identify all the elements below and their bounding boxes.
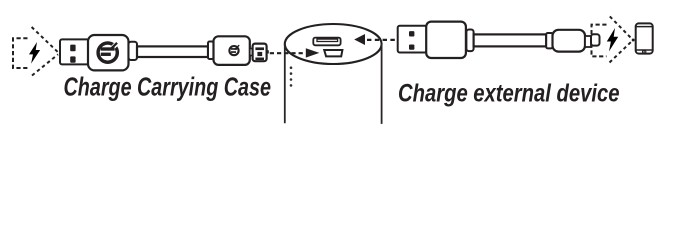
micro-USB tip bbox=[253, 44, 267, 62]
cable (left) bbox=[137, 46, 208, 57]
plug neck (right) bbox=[585, 36, 591, 47]
cable boot (right plug) bbox=[466, 30, 473, 52]
USB-A output port inner bar bbox=[317, 39, 338, 41]
cylinder right side wall bbox=[381, 44, 383, 124]
USB-A metal connector (right cable) bbox=[398, 26, 427, 53]
cylinder left side wall bbox=[284, 44, 286, 123]
USB-A contact pin 2 (right) bbox=[409, 45, 414, 50]
svg-text:Charge external device: Charge external device bbox=[398, 80, 620, 108]
USB-A contact pin 1 (right) bbox=[409, 31, 414, 36]
phone screen top line bbox=[635, 26, 653, 28]
micro-USB tip center contact bbox=[257, 52, 262, 56]
plug logo (left USB-A) bbox=[98, 40, 120, 62]
cable boot (right small plug) bbox=[546, 33, 552, 48]
USB-C tip (right) bbox=[591, 34, 600, 45]
dashed chevron arrow (right) bbox=[610, 16, 632, 62]
chevron apex dot (left) bbox=[59, 51, 62, 54]
arrow into micro port (points right) bbox=[306, 48, 320, 57]
phone home button bbox=[643, 50, 646, 53]
svg-text:Charge Carrying Case: Charge Carrying Case bbox=[64, 74, 272, 102]
lightning bolt (left) bbox=[29, 42, 40, 64]
phone screen bottom line bbox=[635, 49, 653, 51]
USB-A plug body (right) bbox=[426, 22, 466, 58]
USB-A plug body (left) bbox=[88, 35, 129, 70]
plug logo (micro-USB) bbox=[229, 45, 239, 55]
micro-USB neck bbox=[250, 49, 253, 56]
cable boot (micro plug) bbox=[208, 42, 214, 60]
arrow into USB-A port (points left) bbox=[354, 34, 365, 45]
chevron apex dot (right) bbox=[632, 39, 635, 42]
USB-A contact pin 1 (left) bbox=[70, 45, 75, 52]
micro-USB tip bottom contact bar bbox=[255, 58, 264, 61]
dashed wire USB-A port arrow to right cable bbox=[367, 39, 396, 41]
USB-A output port on case bbox=[313, 38, 340, 46]
lightning bolt (right) bbox=[607, 28, 618, 52]
dashed chevron arrow (left) bbox=[32, 27, 58, 76]
cable (right) bbox=[474, 34, 547, 46]
micro-USB tip top contact bar bbox=[255, 47, 264, 50]
cable boot (left plug) bbox=[129, 42, 138, 60]
USB-A metal connector (left cable) bbox=[60, 39, 89, 64]
micro-USB plug body (left cable) bbox=[214, 36, 250, 65]
small plug body (right cable) bbox=[553, 30, 586, 52]
power source dashed box (left) bbox=[13, 38, 28, 68]
phone (external device) bbox=[636, 23, 653, 53]
dashed wire micro tip to port arrow bbox=[270, 52, 305, 54]
LED indicator dots bbox=[290, 66, 293, 86]
micro-USB input port on case bbox=[324, 50, 342, 56]
USB-A contact pin 2 (left) bbox=[70, 56, 75, 62]
power dashed box (right) bbox=[592, 25, 607, 57]
micro-USB tip nub bbox=[267, 50, 269, 53]
carrying case cylinder top ellipse bbox=[285, 24, 382, 64]
